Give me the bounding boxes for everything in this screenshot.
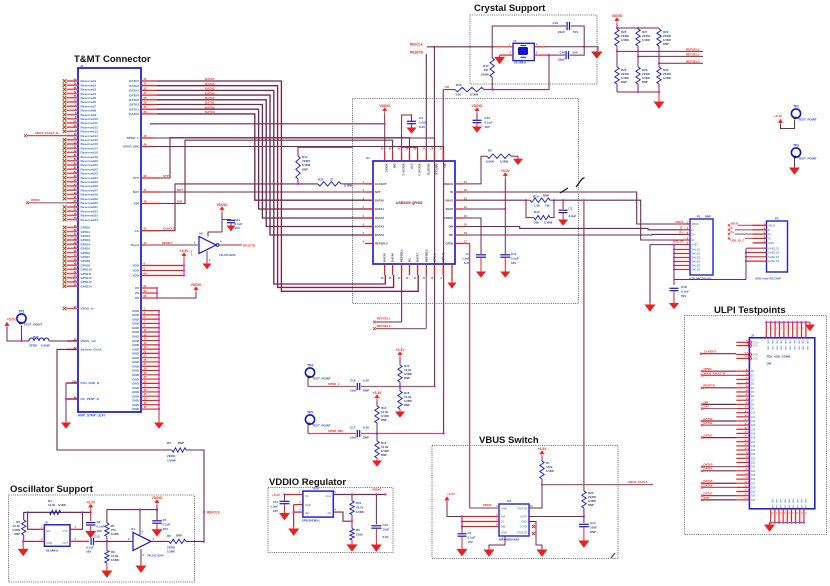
svg-text:GND: GND [767, 340, 769, 345]
svg-text:GND: GND [804, 505, 806, 510]
svg-text:SHLD5: SHLD5 [692, 264, 701, 268]
pin J2 top gnd [792, 322, 794, 338]
svg-text:1/16W: 1/16W [621, 38, 629, 42]
svg-text:20k: 20k [534, 221, 539, 225]
box crystal support [470, 15, 597, 84]
svg-text:GND: GND [768, 241, 774, 245]
wire DATA0 to J2 [703, 420, 736, 422]
svg-text:+3.3V: +3.3V [86, 501, 96, 505]
pin J2 bottom gnd [790, 509, 792, 523]
svg-text:VDD18_2: VDD18_2 [418, 164, 422, 177]
svg-text:ID: ID [692, 238, 695, 242]
svg-text:DATA7: DATA7 [205, 77, 215, 81]
pin A12 D11 of J2 [736, 416, 749, 418]
pin 1 of Y1 [494, 46, 513, 48]
pin A19 D18 of J2 [736, 445, 749, 447]
node D+ label P2 [728, 233, 730, 235]
svg-text:FAULTB: FAULTB [517, 507, 527, 511]
connector pin VDD [141, 275, 184, 277]
resistor R5 [169, 539, 186, 543]
ground J2 bottom rail [769, 523, 771, 524]
ground C2 [458, 537, 467, 556]
svg-text:VDDIO: VDDIO [152, 496, 163, 500]
pin A16 D15 of J2 [736, 432, 749, 434]
svg-text:26.0MHz: 26.0MHz [514, 61, 527, 65]
pin 23 ID of U1 [455, 191, 463, 193]
pin A10 D9 of J2 [736, 408, 749, 410]
svg-text:EN: EN [47, 529, 51, 533]
pin 3 OUT of X1 [70, 540, 89, 542]
pin J2 top gnd [801, 322, 803, 338]
connector pin Reserved12 [63, 125, 67, 129]
svg-text:GND: GND [792, 505, 794, 510]
pin J2 bottom gnd [774, 509, 776, 523]
resistor R3 [172, 448, 186, 452]
svg-text:RESETB: RESETB [243, 243, 256, 247]
capacitor C8 [86, 522, 96, 524]
connector pin CA [141, 230, 160, 232]
connector J2 TEK_USB_CONN body [749, 338, 814, 509]
ground PSU/DC bus [62, 420, 70, 428]
pin 3 DATA0 of U1 [365, 199, 373, 201]
svg-text:GND: GND [305, 503, 311, 507]
svg-text:+5.0V: +5.0V [501, 169, 511, 173]
svg-text:SPK_L: SPK_L [432, 253, 436, 262]
pin 4 DATA1 of U1 [365, 208, 373, 210]
pin A13 D12 of J2 [736, 420, 749, 422]
connector pin SPKR_MIC [141, 146, 153, 148]
pin A17 D16 of J2 [736, 437, 749, 439]
svg-text:U3: U3 [507, 499, 511, 503]
svg-text:DATA0: DATA0 [375, 198, 384, 202]
pin B02 CX2- of J2 [736, 357, 748, 359]
svg-text:R11: R11 [356, 501, 362, 505]
svg-text:VBUS_in: VBUS_in [81, 307, 94, 311]
svg-text:+3.3V: +3.3V [538, 447, 548, 451]
svg-text:C12: C12 [383, 523, 389, 527]
power +3.3V oscillator [89, 505, 93, 511]
svg-text:GND: GND [797, 346, 799, 351]
connector pin GND [141, 399, 159, 401]
svg-text:CX1-: CX1- [753, 346, 758, 348]
wire STP to J2 [703, 499, 736, 501]
svg-text:SHIELD1: SHIELD1 [768, 246, 780, 250]
wire VDDIO feed into chip [150, 123, 385, 125]
svg-text:TEST_POINT: TEST_POINT [798, 118, 817, 122]
resistor R13 [526, 200, 534, 217]
pin B4 D21 of J2 [736, 457, 749, 459]
svg-text:VBUS: VBUS [768, 223, 776, 227]
no-connect OUTB [532, 525, 535, 528]
ground R19 [373, 458, 381, 466]
svg-text:10.0k: 10.0k [381, 410, 389, 414]
pin 11 REFSEL1 of U1 [401, 264, 403, 275]
svg-text:DNP: DNP [543, 194, 549, 198]
ground C18 [670, 292, 678, 309]
svg-text:DNP: DNP [588, 503, 594, 507]
pin 1 VBUS of P1 [683, 223, 690, 225]
svg-text:USB_ID: USB_ID [673, 240, 683, 244]
connector J1 T&MT body [78, 68, 141, 412]
svg-text:RESET: RESET [162, 241, 172, 245]
wire DATA6 to J2 [703, 486, 736, 488]
svg-text:ZERO: ZERO [167, 454, 176, 458]
svg-text:D+: D+ [731, 230, 735, 234]
svg-text:SP6205EM5-L: SP6205EM5-L [302, 519, 321, 523]
svg-text:DATA6: DATA6 [129, 84, 139, 88]
connector pin GND [141, 340, 159, 342]
capacitor C16 [356, 383, 358, 390]
connector pin DATA4 [141, 94, 157, 96]
svg-text:GND: GND [792, 499, 794, 504]
testpoint TP4 [305, 368, 314, 377]
svg-text:REFSEL2: REFSEL2 [686, 47, 700, 51]
svg-text:VBUS Switch: VBUS Switch [479, 435, 539, 446]
connector pin GPIO4 [63, 242, 67, 246]
svg-text:TEST_POINT: TEST_POINT [798, 157, 817, 161]
connector pin DATA1 [141, 108, 157, 110]
svg-text:ZERO: ZERO [588, 495, 597, 499]
svg-text:GND: GND [793, 346, 795, 351]
wire VBUS_FAULT_N to J2 [703, 374, 736, 376]
pin 31 DIR of U1 [392, 151, 394, 161]
svg-text:50V: 50V [573, 30, 578, 34]
pin J2 top gnd [779, 322, 781, 338]
svg-text:1.0uF: 1.0uF [270, 505, 278, 509]
svg-text:DC_PENT_N: DC_PENT_N [81, 397, 100, 401]
svg-text:ONB: ONB [501, 531, 507, 535]
svg-text:+5.0V: +5.0V [272, 493, 280, 497]
svg-text:U10: U10 [313, 487, 319, 491]
svg-text:REFSEL0: REFSEL0 [686, 59, 700, 63]
svg-text:ID: ID [768, 237, 771, 241]
power +3.3V connector VDD [182, 253, 186, 259]
resistor R27 [636, 29, 640, 46]
ground connector GND bus [155, 420, 163, 428]
wire XO to crystal pin3 [484, 89, 492, 91]
svg-text:D26: D26 [751, 479, 756, 481]
connector pin Reserved21 [63, 163, 67, 167]
ground C10 [473, 123, 481, 132]
connector pin Reserved22 [63, 167, 67, 171]
svg-text:GND: GND [784, 346, 786, 351]
wire DATA3 net [157, 100, 373, 227]
capacitor C11 [500, 254, 510, 256]
svg-text:DNP: DNP [381, 418, 387, 422]
svg-text:6.3V: 6.3V [419, 125, 425, 129]
svg-text:R9: R9 [356, 528, 360, 532]
connector pin Reserved13 [63, 130, 67, 134]
svg-text:DATA0: DATA0 [205, 110, 215, 114]
svg-text:NXT: NXT [375, 190, 381, 194]
ground C5 [153, 524, 162, 536]
svg-text:Vin: Vin [305, 494, 309, 498]
svg-text:DATA6: DATA6 [205, 82, 215, 86]
svg-text:R2: R2 [488, 149, 492, 153]
pin B6 D23 of J2 [736, 466, 749, 468]
wire REFSEL2 net [616, 46, 618, 67]
svg-text:Reserved34: Reserved34 [81, 218, 99, 222]
resistor R10 [526, 199, 530, 201]
svg-text:VCC: VCC [63, 529, 69, 533]
box center USB3300 [353, 99, 579, 304]
svg-text:VBUS: VBUS [676, 220, 684, 224]
svg-text:TEK_USB_CONN: TEK_USB_CONN [767, 355, 791, 359]
wire J2 bottom gnd rail [770, 522, 805, 524]
svg-text:CLKOUT: CLKOUT [163, 227, 176, 231]
svg-text:DATA1: DATA1 [375, 207, 384, 211]
wire VBAT to +5.0V [463, 208, 505, 210]
connector pin Reserved18 [63, 151, 67, 155]
svg-text:C16: C16 [350, 379, 356, 383]
pin 26 REFCLK of U1 [433, 151, 435, 161]
svg-text:VDDIO: VDDIO [472, 104, 483, 108]
pin 32 VDDIO of U1 [384, 151, 386, 161]
svg-text:D30: D30 [751, 496, 756, 498]
svg-text:50V: 50V [681, 294, 686, 298]
svg-text:GND: GND [802, 340, 804, 345]
svg-text:C20: C20 [559, 51, 565, 55]
svg-text:VDDIO: VDDIO [217, 203, 228, 207]
box ULPI testpoints [685, 316, 827, 535]
svg-text:REFCLK: REFCLK [434, 164, 438, 175]
pin J2 bottom gnd [782, 509, 784, 523]
svg-text:1/16W: 1/16W [663, 76, 671, 80]
svg-text:ZERO: ZERO [663, 34, 672, 38]
connector pin VBUS_out [67, 340, 78, 342]
node REFSEL1 mid [373, 321, 376, 324]
svg-text:OPEN: OPEN [483, 503, 491, 507]
svg-text:RESETB: RESETB [704, 384, 715, 388]
svg-text:U1: U1 [366, 156, 370, 160]
svg-text:VDDIO: VDDIO [379, 104, 390, 108]
pin B3 D20 of J2 [736, 453, 749, 455]
connector pin Reserved20 [63, 159, 67, 163]
capacitor C14 [583, 517, 585, 524]
svg-text:VBUS_FAULT: VBUS_FAULT [628, 480, 648, 484]
connector pin GND [141, 395, 159, 397]
pin J2 bottom gnd [770, 509, 772, 523]
wire TP2 to +3.3V [781, 120, 795, 129]
connector pin GND [141, 352, 159, 354]
svg-text:GND: GND [800, 505, 802, 510]
connector pin GND [141, 327, 159, 329]
wire P2 shield bus [745, 248, 747, 279]
svg-text:STP: STP [163, 174, 169, 178]
svg-text:R5: R5 [167, 534, 171, 538]
pin A3 D2 of J2 [736, 379, 749, 381]
svg-text:10.0k: 10.0k [48, 503, 56, 507]
svg-text:GND: GND [771, 499, 773, 504]
svg-text:D24: D24 [751, 471, 756, 473]
connector pin GPIO0 [63, 226, 67, 230]
svg-text:D17: D17 [751, 442, 756, 444]
svg-text:C8: C8 [97, 520, 101, 524]
ground R18 [396, 409, 404, 417]
pin SHIELD3 of P2 [746, 256, 767, 258]
svg-text:GND: GND [775, 499, 777, 504]
capacitor C21 [222, 219, 231, 221]
connector pin Reserved9 [63, 113, 67, 117]
svg-text:OUTB: OUTB [520, 525, 527, 529]
IC U3 MAX4995 body [499, 504, 529, 536]
power +3.3V SPKR_MIC [375, 395, 379, 401]
svg-text:REFSEL1: REFSEL1 [686, 52, 700, 56]
pin 10 DATA6 of U1 [392, 264, 394, 275]
svg-text:0.1uF: 0.1uF [97, 525, 105, 529]
connector pin Reserved26 [63, 184, 67, 188]
ground C12 [372, 529, 381, 551]
svg-text:FB: FB [328, 511, 332, 515]
svg-text:TEST_POINT: TEST_POINT [24, 323, 43, 327]
svg-text:INA: INA [501, 515, 506, 519]
svg-text:GND: GND [804, 499, 806, 504]
svg-text:27: 27 [330, 178, 334, 182]
connector pin Reserved32 [63, 209, 67, 213]
pin 2 INA of U3 [462, 516, 499, 518]
connector pin GND [141, 404, 159, 406]
connector pin GPIO9 [63, 263, 67, 267]
capacitor C13 [284, 495, 286, 501]
svg-text:VDD18_1: VDD18_1 [402, 164, 406, 177]
svg-text:REFSEL1: REFSEL1 [377, 317, 391, 321]
svg-text:P2: P2 [775, 217, 779, 221]
connector pin GND [141, 310, 159, 312]
svg-text:CX1+: CX1+ [753, 342, 759, 344]
pin 16 SPK_R of U1 [442, 264, 444, 275]
node REFSEL2 mid [373, 327, 376, 330]
crystal Y1 [513, 43, 534, 60]
ground J2 top rail [809, 322, 811, 324]
svg-text:XO: XO [445, 85, 450, 89]
pin 12 NC of U1 [409, 264, 411, 275]
pin A2 D1 of J2 [736, 374, 749, 376]
svg-text:NXT: NXT [133, 190, 139, 194]
wire VBUS_FAULT out [542, 484, 653, 486]
pin A1 D0 of J2 [736, 370, 749, 372]
svg-text:D25: D25 [751, 475, 756, 477]
pin J2 bottom gnd [786, 509, 788, 523]
pin 1 ONB of U3 [470, 507, 499, 509]
pin B5 D22 of J2 [736, 462, 749, 464]
svg-text:VBUS_FAULT_N: VBUS_FAULT_N [35, 131, 58, 135]
wire DM net [463, 227, 683, 230]
connector pin I/O [141, 297, 157, 299]
resistor R1 [540, 461, 544, 479]
connector pin VBUS_in [63, 307, 67, 311]
pin A15 D14 of J2 [736, 428, 749, 430]
pin J2 top gnd [774, 322, 776, 338]
capacitor C10 [475, 108, 479, 114]
connector pin Reserved3 [63, 88, 67, 92]
wire DATA1 net [157, 109, 373, 209]
wire VDD33 to C3 [463, 218, 481, 254]
ground C11 [501, 258, 509, 277]
wire U4 power [139, 510, 141, 535]
svg-text:GND: GND [784, 340, 786, 345]
svg-text:REFSEL0: REFSEL0 [375, 242, 388, 246]
svg-text:DNP: DNP [621, 80, 627, 84]
svg-text:D14: D14 [751, 429, 756, 431]
pin SHLD2 of P1 [674, 253, 690, 255]
pin A6 D5 of J2 [736, 391, 749, 393]
svg-text:+5.0V: +5.0V [7, 318, 16, 322]
connector pin GND [141, 357, 159, 359]
connector pin Reserved6 [63, 100, 67, 104]
wire VBUS switch feed [583, 200, 585, 491]
svg-text:FAULTB: FAULTB [517, 531, 527, 535]
svg-text:Y1: Y1 [513, 39, 517, 43]
svg-text:74LVC1G04: 74LVC1G04 [147, 554, 164, 558]
svg-text:VDDIO: VDDIO [385, 164, 389, 174]
resistor R18 [399, 387, 401, 392]
svg-text:USB_ID_C: USB_ID_C [731, 238, 745, 242]
svg-text:GND: GND [771, 340, 773, 345]
pin 15 SPK_L of U1 [433, 264, 435, 275]
svg-text:10.0k: 10.0k [13, 524, 21, 528]
pin A20 D19 of J2 [736, 449, 749, 451]
resistor R17 [491, 47, 493, 58]
wire RESETB to J2 [703, 387, 736, 389]
connector pin Reserved29 [63, 197, 67, 201]
pin 4 ID of P2 [753, 237, 767, 239]
svg-text:CX2-: CX2- [753, 358, 758, 360]
pin SHIELD1 of P2 [746, 247, 767, 249]
resistor R28 [636, 67, 640, 84]
svg-text:DATA1: DATA1 [704, 421, 713, 425]
svg-text:R22: R22 [318, 178, 324, 182]
wire pin4 to ground [547, 46, 584, 48]
wire VBUS net [463, 199, 526, 201]
svg-text:VDDIO: VDDIO [372, 488, 382, 492]
pin B7 D24 of J2 [736, 470, 749, 472]
pin B13 D30 of J2 [736, 495, 749, 497]
power +3.3V R1 [540, 451, 544, 457]
wire RESETB from U5 [219, 244, 242, 246]
svg-text:DNP: DNP [642, 80, 648, 84]
capacitor C18 [670, 287, 679, 289]
pin B11 D28 of J2 [736, 486, 749, 488]
svg-text:SHLD3: SHLD3 [692, 256, 701, 260]
svg-text:RBIAS: RBIAS [444, 182, 453, 186]
connector pin VDD [141, 265, 184, 267]
connector pin SPKR_L [141, 137, 153, 139]
pin 5 GND of P2 [753, 242, 767, 244]
svg-text:TP1: TP1 [19, 310, 25, 314]
pin 27 RESETB of U1 [425, 151, 427, 161]
svg-text:1/16W: 1/16W [663, 38, 671, 42]
svg-text:10uF: 10uF [350, 389, 357, 393]
svg-text:1/16W: 1/16W [381, 414, 389, 418]
pin SHLD6 of P1 [674, 269, 690, 271]
svg-text:C5: C5 [163, 518, 167, 522]
node VBUS label P2 [728, 224, 730, 226]
pin 3 D+ of P1 [683, 233, 690, 235]
svg-text:1/16W: 1/16W [111, 558, 119, 562]
connector pin Reset [141, 244, 145, 246]
wire DIR to J2 [703, 403, 736, 405]
svg-text:GND: GND [797, 340, 799, 345]
resistor R6 [22, 520, 26, 535]
svg-text:Vout: Vout [326, 494, 331, 498]
svg-text:OUTA: OUTA [520, 515, 527, 519]
connector pin GPIO11 [63, 272, 67, 276]
svg-text:1/16W: 1/16W [546, 469, 554, 473]
svg-text:1W: 1W [545, 204, 550, 208]
wire DATA5 net [157, 90, 385, 284]
svg-text:C14: C14 [590, 521, 596, 525]
connector pin Reserved4 [63, 92, 67, 96]
